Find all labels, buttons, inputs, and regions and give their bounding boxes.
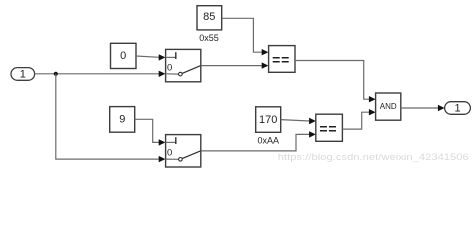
svg-text:170: 170 bbox=[259, 114, 277, 126]
svg-text:0: 0 bbox=[167, 62, 172, 73]
arrowhead into Switch2 input1 bbox=[159, 139, 166, 145]
wire In1 to Switch1 input3 bbox=[35, 73, 160, 75]
arrowhead into Equal1 input2 bbox=[262, 62, 269, 68]
switch block Switch1 bbox=[166, 49, 201, 81]
svg-text:https://blog.csdn.net/weixin_4: https://blog.csdn.net/weixin_42341506 bbox=[278, 152, 469, 163]
constant block 0 bbox=[111, 43, 137, 68]
wire Constant85 to Equal1 input1 bbox=[222, 18, 263, 52]
svg-text:0x55: 0x55 bbox=[199, 33, 219, 43]
arrowhead into Equal2 input2 bbox=[309, 131, 316, 137]
svg-text:85: 85 bbox=[203, 11, 215, 23]
relational operator Equal1 bbox=[269, 46, 295, 73]
wire Constant9 to Switch2 input1 bbox=[135, 119, 160, 142]
wire Constant170 to Equal2 input1 bbox=[281, 120, 310, 121]
logical operator AND bbox=[376, 93, 401, 120]
arrowhead into Out1 bbox=[438, 105, 445, 111]
arrowhead into AND input2 bbox=[369, 109, 376, 115]
svg-text:1: 1 bbox=[454, 103, 460, 115]
svg-text:0xAA: 0xAA bbox=[257, 135, 279, 145]
constant block 170 bbox=[256, 107, 281, 133]
arrowhead into Equal1 input1 bbox=[262, 49, 269, 55]
wire Equal1 to AND input1 bbox=[295, 61, 369, 100]
wire Equal2 to AND input2 bbox=[342, 112, 369, 129]
svg-text:0: 0 bbox=[167, 148, 172, 159]
svg-text:9: 9 bbox=[119, 114, 125, 126]
svg-text:1: 1 bbox=[20, 68, 26, 80]
svg-text:==: == bbox=[319, 120, 337, 136]
arrowhead into Switch1 input1 bbox=[159, 54, 166, 60]
arrowhead into Switch2 input3 bbox=[159, 156, 166, 162]
wire Constant0 to Switch1 input1 bbox=[136, 56, 159, 57]
arrowhead into AND input1 bbox=[369, 96, 376, 102]
relational operator Equal2 bbox=[316, 114, 343, 141]
switch block Switch2 bbox=[166, 135, 201, 167]
arrowhead into Switch1 input3 bbox=[159, 71, 166, 77]
node junction bbox=[54, 72, 58, 76]
constant block 85 bbox=[197, 6, 222, 30]
wire Switch1 to Equal1 input2 bbox=[201, 65, 262, 67]
inport In1 bbox=[11, 68, 35, 81]
svg-text:AND: AND bbox=[380, 102, 397, 111]
svg-text:0: 0 bbox=[120, 50, 126, 62]
wire junction down to Switch2 input3 bbox=[56, 74, 159, 159]
arrowhead into Equal2 input1 bbox=[309, 118, 316, 124]
outport Out1 bbox=[445, 102, 471, 115]
wire Switch2 to Equal2 input2 bbox=[201, 134, 310, 151]
svg-text:==: == bbox=[272, 52, 290, 68]
wire AND to Out1 bbox=[401, 107, 439, 109]
constant block 9 bbox=[110, 107, 135, 133]
